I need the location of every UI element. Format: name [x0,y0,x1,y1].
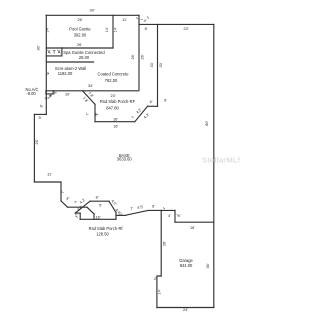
svg-text:8': 8' [96,196,99,200]
svg-text:1': 1' [75,214,78,218]
hexagon NE diagonal [75,201,90,213]
svg-text:14': 14' [46,27,50,32]
svg-text:24': 24' [183,308,188,312]
svg-text:28.00: 28.00 [79,55,90,60]
svg-text:762.00: 762.00 [105,78,118,83]
diagonal to y206.5 [61,201,68,207]
ticks near hexagon left [76,217,78,218]
garage notch [157,276,161,308]
svg-text:2': 2' [154,277,157,281]
hexagon top [90,200,109,202]
left step down vertical x61 [60,182,62,201]
svg-text:14': 14' [114,27,118,32]
vertical x157.5 [157,24,159,106]
svg-text:-8.00: -8.00 [26,91,36,96]
svg-text:Rsd Slab Porch-RF: Rsd Slab Porch-RF [100,99,136,104]
tick notch bottom left [96,114,98,116]
svg-text:8': 8' [145,27,148,31]
tick notch diag [132,116,134,118]
vertical x94 [93,214,95,219]
wire top edge [46,14,139,16]
svg-text:1182.00: 1182.00 [58,71,73,76]
spa box [46,48,62,56]
svg-text:14': 14' [105,27,109,32]
no A/C box [46,91,53,94]
garage left edge [160,210,162,276]
hexagon bottom [80,218,116,220]
porch notch vertical [94,104,96,121]
svg-text:5': 5' [99,203,102,207]
svg-text:7': 7' [86,112,90,115]
ticks near garage steps [163,208,179,216]
svg-text:26': 26' [35,139,39,144]
svg-text:36': 36' [206,263,210,268]
tick right of box [55,92,57,95]
porch notch top right horizontal [148,105,158,107]
svg-text:4': 4' [144,19,147,23]
tick left edge y73.5 [46,72,49,74]
svg-text:Pool Gunite: Pool Gunite [69,27,91,32]
svg-text:14': 14' [158,289,162,294]
garage bottom [157,307,214,309]
svg-text:33': 33' [150,62,154,67]
svg-text:6': 6' [152,204,155,208]
svg-text:11': 11' [122,18,127,22]
wire y182 [34,181,61,183]
garage top [175,221,214,223]
svg-text:6': 6' [150,100,153,104]
svg-text:10': 10' [65,92,70,96]
hexagon right vertical [115,213,117,220]
tick step 4' top [136,17,149,20]
wire y24.4 top of right wing [139,23,214,25]
diagonal down to 94,213.8 [87,207,94,214]
svg-text:Rsd Slab Porch-Rf: Rsd Slab Porch-Rf [89,226,124,231]
svg-text:4': 4' [168,214,171,218]
svg-text:847.80: 847.80 [106,105,119,110]
wall east of hexagon [116,214,125,216]
svg-text:26': 26' [78,18,83,22]
svg-text:30': 30' [37,45,41,50]
wire right edge [213,24,215,307]
left lower edge [33,114,35,182]
wire y62 [46,61,93,63]
svg-text:34': 34' [88,84,93,88]
wire y206.5 [68,206,88,208]
svg-text:4': 4' [178,214,181,218]
svg-text:7': 7' [95,112,99,115]
porch notch bottom [95,121,135,123]
svg-text:7': 7' [61,190,65,193]
wire left edge [45,15,47,114]
hexagon left spur [75,212,80,214]
porch notch rising diagonal [135,106,148,121]
no A/C leader arrow [48,95,51,99]
svg-text:11': 11' [47,172,52,176]
svg-text:26': 26' [141,54,145,59]
svg-text:Coated Concrete: Coated Concrete [98,72,130,77]
svg-text:23': 23' [111,94,116,98]
svg-text:4': 4' [45,97,48,101]
svg-text:80': 80' [205,121,209,126]
pool bottom [46,47,113,49]
svg-text:26': 26' [163,241,167,246]
svg-text:16': 16' [113,118,118,122]
hexagon left vertical [79,213,81,219]
svg-text:128.50: 128.50 [96,231,109,236]
svg-text:6': 6' [164,99,167,103]
wire y210.4 [148,209,175,211]
pool right edge [112,15,114,48]
svg-text:StellarMLS: StellarMLS [202,156,240,165]
spa hatches [48,50,61,54]
step down x175 [174,210,176,222]
svg-text:33': 33' [159,62,163,67]
svg-text:844.00: 844.00 [180,263,193,268]
svg-text:16': 16' [96,216,101,220]
svg-text:26': 26' [131,54,135,59]
svg-text:392.00: 392.00 [74,32,87,37]
svg-text:7': 7' [74,201,77,205]
svg-text:16': 16' [190,226,195,230]
svg-text:8': 8' [40,104,44,107]
svg-text:16': 16' [113,125,118,129]
wire y90.8 bottom of deck [46,90,139,92]
svg-text:Garage: Garage [179,258,193,263]
svg-text:3633.60: 3633.60 [117,156,133,161]
svg-text:39': 39' [90,8,95,12]
hexagon SE diagonal [109,201,116,212]
svg-text:5': 5' [39,116,42,120]
porch notch diagonal [83,91,96,105]
left jog horizontal y114.4 [34,113,46,115]
svg-text:26': 26' [77,43,82,47]
svg-text:23': 23' [184,27,189,31]
shallow rising diagonal [125,210,148,215]
wire step right vertical x139 [138,15,140,89]
